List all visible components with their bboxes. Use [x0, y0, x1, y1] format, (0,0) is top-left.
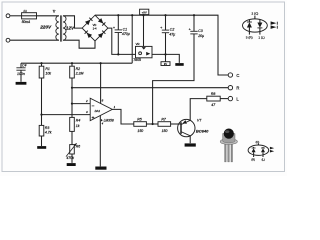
- svg-text:(C): (C): [256, 140, 260, 144]
- ground (VT1): [185, 143, 196, 146]
- node B (R2 bottom): [71, 87, 73, 89]
- node C1 top: [117, 14, 119, 16]
- capacitor C2 47u: [165, 15, 167, 30]
- svg-text:C4: C4: [22, 64, 27, 68]
- wire (C2 node to supply link): [165, 54, 167, 61]
- svg-text:4.7k: 4.7k: [45, 131, 52, 135]
- svg-text:+: +: [113, 26, 115, 30]
- svg-text:220V: 220V: [39, 24, 52, 29]
- wire (emitter to ground): [189, 136, 191, 143]
- diode VD4 (bridge lower-right): [98, 33, 103, 38]
- svg-text:R5: R5: [137, 118, 142, 122]
- bridge rectifier VD1-VD4: [82, 15, 108, 41]
- pin (C): [257, 144, 259, 146]
- LED chip left: [253, 147, 255, 148]
- transformer primary winding 220V: [56, 16, 59, 40]
- node V1 top: [131, 14, 133, 16]
- wire: [71, 88, 73, 104]
- svg-text:R6: R6: [76, 145, 81, 149]
- transformer core: [59, 15, 61, 41]
- svg-text:470k: 470k: [66, 156, 74, 160]
- svg-text:+: +: [160, 26, 162, 30]
- svg-text:(L): (L): [262, 157, 265, 161]
- ground (regulator output): [175, 63, 183, 66]
- transistor VT1 BC640: [178, 119, 195, 136]
- svg-text:1 (L): 1 (L): [258, 36, 264, 40]
- transformer secondary winding 12V: [63, 16, 66, 40]
- bi-color LED package pinout (bottom view): [248, 145, 269, 155]
- svg-text:2 (C): 2 (C): [251, 11, 258, 15]
- terminal C: [228, 73, 232, 77]
- node A (R1/R3 divider): [40, 114, 42, 116]
- svg-text:R3: R3: [45, 126, 50, 130]
- wire: [41, 78, 43, 115]
- ground (op-amp): [95, 167, 106, 170]
- wire (to op-amp non-inverting input): [42, 114, 91, 116]
- svg-text:20µ: 20µ: [197, 34, 204, 38]
- page border: [2, 2, 285, 172]
- LED chip right: [262, 147, 264, 148]
- svg-text:9V: 9V: [164, 62, 167, 66]
- wire (to terminal R): [72, 87, 228, 89]
- node C3 top: [193, 14, 195, 16]
- terminal X1.2 (220V input bottom): [6, 38, 10, 42]
- svg-text:150: 150: [137, 129, 143, 133]
- svg-text:+9V: +9V: [142, 11, 147, 15]
- svg-text:1k: 1k: [76, 124, 80, 128]
- svg-text:LM358: LM358: [104, 118, 114, 122]
- op-amp part label: [101, 119, 103, 122]
- wire: [63, 40, 95, 48]
- LED light arrows: [271, 21, 277, 25]
- wire: [10, 15, 22, 17]
- pin 2 (C): [254, 16, 256, 19]
- svg-text:C: C: [236, 73, 239, 78]
- bi-color LED HL1 pinout (schematic): [243, 19, 268, 32]
- op-amp DA1 LM358: [90, 98, 112, 120]
- pin (L): [262, 155, 264, 157]
- svg-text:BC640: BC640: [196, 129, 209, 134]
- node D (op-amp inverting input): [71, 103, 73, 105]
- diode VD2 (bridge upper-right): [98, 18, 103, 23]
- op-amp V+ pin 8 wire: [100, 63, 102, 103]
- voltage regulator U1 7805 box: [143, 15, 145, 46]
- net label 9V box: [161, 62, 170, 66]
- terminal X1.1 (220V input top): [6, 14, 10, 18]
- wire (collector up): [190, 99, 207, 121]
- wire (vertical from + rail to supply rail): [131, 15, 133, 63]
- resistor R3 4.7k: [41, 115, 43, 126]
- svg-text:F1: F1: [24, 9, 28, 13]
- wire: [63, 16, 82, 28]
- wire (op-amp supply rail): [21, 62, 132, 64]
- node regulator top: [142, 14, 144, 16]
- diode VD1 (bridge upper-left): [85, 20, 90, 25]
- svg-text:R4: R4: [76, 119, 81, 123]
- resistor R5 150: [134, 122, 147, 127]
- svg-text:R8: R8: [211, 92, 216, 96]
- wire (to VT1 base): [171, 123, 181, 125]
- wire (op-amp output): [112, 109, 134, 124]
- svg-text:(R): (R): [251, 157, 255, 161]
- resistor R7 150: [158, 122, 171, 127]
- wire: [220, 98, 228, 100]
- svg-text:C3: C3: [198, 29, 203, 33]
- op-amp V- pin 4 wire: [99, 115, 101, 166]
- wire: [152, 54, 179, 63]
- LED element right (down): [259, 20, 261, 23]
- svg-text:470µ: 470µ: [122, 32, 130, 36]
- diode VD3 (bridge lower-left): [87, 33, 92, 38]
- node R2 top: [71, 62, 73, 64]
- resistor R2 2.2M: [71, 63, 73, 66]
- wire (rectifier output rail): [108, 28, 136, 54]
- pin (R): [253, 155, 255, 157]
- capacitor C4 100n: [20, 63, 22, 68]
- svg-text:3 (R): 3 (R): [246, 36, 253, 40]
- svg-text:47µ: 47µ: [169, 32, 175, 36]
- svg-text:DA1: DA1: [95, 109, 101, 113]
- svg-text:C1: C1: [123, 27, 128, 31]
- svg-text:R1: R1: [45, 67, 50, 71]
- svg-text:R: R: [236, 86, 239, 91]
- svg-text:VR: VR: [136, 42, 140, 46]
- svg-text:2.2M: 2.2M: [75, 71, 84, 75]
- node C2 top: [164, 14, 166, 16]
- resistor R4 1k: [71, 104, 73, 118]
- terminal L: [228, 96, 232, 100]
- svg-text:12V: 12V: [66, 25, 75, 30]
- svg-text:R2: R2: [76, 67, 81, 71]
- capacitor C1 470u: [117, 15, 119, 30]
- svg-text:50mA: 50mA: [22, 20, 31, 24]
- pin 3 (R): [248, 31, 250, 34]
- wire: [146, 123, 158, 125]
- wire: [153, 34, 194, 124]
- node R1 top: [40, 62, 42, 64]
- svg-text:C2: C2: [170, 28, 175, 32]
- trimmer R6 470k: [71, 131, 73, 144]
- svg-text:100n: 100n: [17, 72, 25, 76]
- fuse F1 50mA: [22, 15, 37, 17]
- resistor R1 10k: [41, 63, 43, 66]
- node op-amp pin8: [100, 62, 102, 64]
- capacitor C3 20u: [193, 15, 195, 31]
- ground (R3): [37, 146, 46, 149]
- node C2 bottom: [164, 53, 166, 55]
- svg-text:150: 150: [162, 129, 168, 133]
- svg-text:+: +: [189, 27, 191, 31]
- wire (to op-amp inverting input): [72, 103, 90, 105]
- LED element left (up): [248, 20, 250, 22]
- node C1 bottom: [117, 53, 119, 55]
- terminal R: [228, 86, 232, 90]
- net label +9V box: [140, 9, 149, 14]
- svg-text:10k: 10k: [45, 71, 51, 75]
- transistor BC640 package photo: [220, 129, 237, 162]
- ground (C4): [16, 82, 27, 85]
- svg-text:1-4: 1-4: [93, 26, 97, 30]
- wire (+ rail): [95, 15, 228, 75]
- resistor R8 47: [207, 96, 220, 101]
- pin 1 (L): [259, 31, 261, 34]
- node E (R5/R7 junction): [152, 123, 154, 125]
- LED light arrows small: [270, 147, 274, 150]
- ground (R6): [67, 163, 76, 166]
- svg-text:2: 2: [85, 99, 88, 103]
- wire: [37, 15, 59, 17]
- svg-text:7805: 7805: [133, 58, 141, 62]
- wire: [10, 39, 59, 41]
